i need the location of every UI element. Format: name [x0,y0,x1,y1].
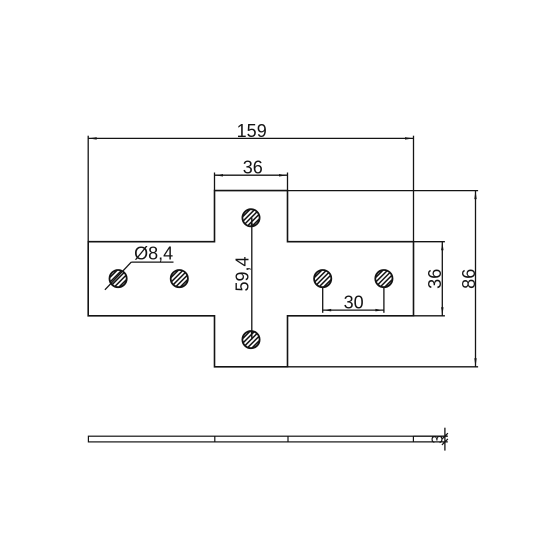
dimension 30: extension line right [383,288,385,313]
dimension 3: oblique tick top [442,433,448,439]
dimension 36 top: left arrow [215,174,224,177]
dimension 30: dimension line [323,309,384,311]
svg-text:159: 159 [237,121,267,141]
dimension 86: extension line top (plate top edge extended) [288,190,479,192]
side view: division line right [287,436,289,442]
hole H4 (bottom center) [239,328,262,351]
dimension 36 right: dimension line [441,242,443,316]
svg-text:30: 30 [344,292,364,312]
dimension 36 top: right arrow [279,174,288,177]
plate outline (cross shape, top view) [88,191,413,367]
dimension 159: right arrow [405,137,414,140]
dimension 159: dimension line [88,137,413,139]
hole H5 (right inner) [311,267,334,290]
dimension 86: bottom arrow [474,358,477,367]
dimension 36 top: extension line right [287,173,289,191]
dimension 86: dimension line [475,191,477,367]
hole H2 (left inner) [168,267,191,290]
dimension 86: extension line bottom (plate bottom edge extended) [288,366,479,368]
dimension 36 right: top arrow [441,242,444,251]
dimension 30: left arrow [323,309,332,312]
dimension 30: extension line left [322,288,324,313]
dimension 36 top: extension line left [214,173,216,191]
dimension 36 right: extension line bottom (arm bottom edge extended) [414,315,445,317]
dimension 36 right: extension line top (arm top edge extended) [414,241,445,243]
side view: plate bar outline [88,436,413,442]
dimension 3: extension line bottom [413,441,447,443]
dimension 3: extension line top [413,435,447,437]
dimension 3: dimension line [444,428,446,451]
dimension 59,4: bottom arrow [251,331,254,340]
svg-text:36: 36 [425,269,445,289]
hole H3 (top center) [239,206,262,229]
hole H6 (right outer) [372,267,395,290]
hole H1 (left outer) [106,267,129,290]
svg-text:86: 86 [459,269,479,289]
dimension 159: extension line left [87,136,89,242]
dimension 86: top arrow [474,191,477,200]
dimension 159: extension line right [413,136,415,242]
label Ø8,4: leader diagonal through hole H1 [105,262,131,290]
dimension 30: right arrow [375,309,384,312]
svg-text:36: 36 [243,158,263,178]
dimension 36 right: bottom arrow [441,307,444,316]
dimension 36 top: dimension line [215,174,288,176]
svg-text:59,4: 59,4 [232,256,252,291]
svg-text:Ø8,4: Ø8,4 [134,243,173,263]
dimension 59,4: top arrow [251,218,254,227]
dimension 3: oblique tick bottom [442,439,448,445]
side view: division line left [214,436,216,442]
svg-text:3: 3 [430,435,447,444]
dimension 59,4: dimension line between hole centers [251,218,253,340]
label Ø8,4: leader underline [131,261,173,263]
dimension 159: left arrow [88,137,97,140]
